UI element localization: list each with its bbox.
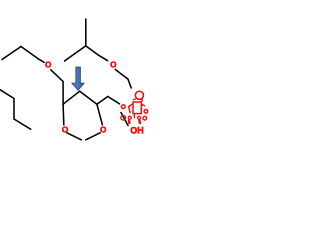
bond P-C5 ring top left	[63, 91, 80, 104]
bond chain bottom-left 1	[0, 90, 14, 99]
bond C7 extension	[65, 54, 76, 62]
icon wheel 2	[128, 116, 131, 119]
bond C6-P ring top right	[80, 91, 97, 104]
bond C5-O3	[62, 104, 65, 125]
icon chin	[133, 98, 136, 101]
bond C6-S1	[97, 97, 108, 105]
svg-text:O: O	[100, 126, 107, 135]
bond O1-C	[51, 70, 63, 82]
bond chain C-C top-left 1	[2, 47, 21, 60]
icon body	[133, 102, 141, 114]
icon left arm upper	[129, 104, 132, 106]
icon center strut	[133, 114, 135, 118]
bond C-C vertical left	[62, 82, 64, 105]
icon right hand	[144, 110, 148, 114]
bond B-C7	[75, 46, 86, 54]
bond C8-O2	[98, 55, 108, 61]
svg-text:O: O	[110, 61, 117, 70]
svg-text:O: O	[45, 61, 52, 70]
icon wheel 1	[121, 115, 126, 120]
bond C-O1	[39, 59, 45, 62]
icon head	[135, 91, 143, 99]
bond methyl vertical top	[85, 19, 87, 46]
svg-text:OH: OH	[130, 125, 144, 135]
bond chain bottom-left 3	[14, 119, 31, 129]
svg-text:O: O	[62, 126, 69, 135]
icon left hand	[121, 105, 125, 109]
icon tail right	[138, 121, 141, 123]
icon tail left	[128, 121, 131, 123]
bond chain C-C top-left 2	[21, 47, 39, 60]
blue arrow annotation	[72, 67, 84, 90]
icon left arm lower	[129, 107, 130, 113]
bond S1-S2	[108, 97, 120, 104]
icon wheel 3	[138, 116, 141, 119]
bond C2-O4 ring bottom right	[86, 133, 100, 140]
bond O3-C2 ring bottom left	[67, 133, 82, 140]
icon right arm	[141, 104, 144, 106]
icon neck tail	[141, 99, 142, 101]
red person icon	[121, 91, 148, 123]
bond chain bottom-left 2	[13, 99, 15, 120]
bond R1 down	[128, 79, 131, 88]
bond S2-OH	[121, 113, 128, 126]
bond B-C8	[86, 46, 98, 55]
bond O4-C6	[97, 104, 103, 125]
bond O2-R1	[115, 70, 128, 80]
icon wheel 4	[143, 116, 147, 120]
